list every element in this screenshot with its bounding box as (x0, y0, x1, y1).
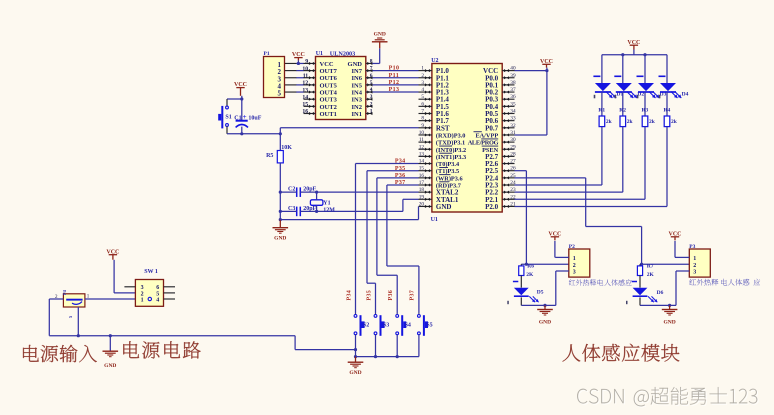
svg-text:1: 1 (141, 297, 144, 303)
svg-text:29: 29 (510, 144, 516, 150)
svg-text:9: 9 (305, 59, 308, 65)
svg-text:S3: S3 (383, 323, 389, 329)
svg-text:(RXD)P3.0: (RXD)P3.0 (436, 132, 466, 139)
svg-text:GND: GND (349, 370, 361, 376)
svg-text:1: 1 (693, 256, 696, 262)
svg-text:10K: 10K (281, 145, 292, 151)
svg-text:10uF: 10uF (248, 115, 261, 121)
svg-text:6: 6 (156, 285, 159, 291)
svg-text:P35: P35 (395, 166, 406, 172)
svg-text:R4: R4 (664, 108, 671, 114)
svg-text:5: 5 (156, 291, 159, 297)
svg-text:(T1)P3.5: (T1)P3.5 (436, 168, 459, 175)
svg-text:10: 10 (419, 130, 425, 136)
svg-text:34: 34 (510, 109, 516, 115)
svg-text:P10: P10 (389, 66, 400, 72)
svg-text:8: 8 (421, 116, 424, 122)
svg-text:IN5: IN5 (352, 82, 363, 89)
svg-text:5: 5 (421, 94, 424, 100)
svg-text:GND: GND (104, 363, 116, 369)
svg-text:Y1: Y1 (323, 200, 330, 206)
svg-text:28: 28 (510, 151, 516, 157)
svg-text:C2: C2 (288, 186, 295, 192)
svg-text:RST: RST (436, 124, 450, 132)
svg-text:3: 3 (421, 80, 424, 86)
svg-text:33: 33 (510, 116, 516, 122)
svg-text:2: 2 (573, 263, 576, 269)
svg-text:9: 9 (421, 123, 424, 129)
svg-text:(TXD)P3.1: (TXD)P3.1 (436, 140, 465, 147)
svg-text:35: 35 (510, 101, 516, 107)
svg-text:IN6: IN6 (352, 75, 363, 82)
svg-text:U2: U2 (431, 58, 438, 64)
svg-text:2: 2 (421, 73, 424, 79)
svg-text:10: 10 (302, 66, 308, 72)
svg-text:6: 6 (421, 101, 424, 107)
svg-text:12M: 12M (323, 208, 335, 214)
svg-text:16: 16 (302, 109, 308, 115)
svg-text:OUT3: OUT3 (320, 97, 338, 104)
svg-text:19: 19 (419, 194, 425, 200)
svg-text:32: 32 (510, 123, 516, 129)
svg-text:GND: GND (374, 32, 386, 38)
svg-text:U1: U1 (431, 217, 438, 223)
svg-text:3: 3 (141, 285, 144, 291)
svg-text:3: 3 (573, 270, 576, 276)
svg-text:S5: S5 (426, 323, 432, 329)
svg-text:P35: P35 (366, 290, 372, 301)
svg-text:GND: GND (436, 203, 452, 211)
svg-text:2k: 2k (671, 119, 678, 125)
svg-text:OUT5: OUT5 (320, 82, 338, 89)
svg-text:13: 13 (419, 151, 425, 157)
svg-text:38: 38 (510, 80, 516, 86)
svg-text:P0.7: P0.7 (485, 124, 499, 132)
svg-text:2k: 2k (649, 119, 656, 125)
svg-text:IN1: IN1 (352, 111, 362, 118)
svg-text:D6: D6 (657, 290, 664, 296)
svg-text:D4: D4 (682, 91, 689, 97)
svg-text:GND: GND (539, 320, 551, 326)
svg-text:39: 39 (510, 73, 516, 79)
svg-text:EA/VPP: EA/VPP (475, 132, 498, 139)
svg-text:15: 15 (419, 166, 425, 172)
svg-text:GND: GND (274, 236, 286, 242)
svg-text:S4: S4 (405, 323, 411, 329)
svg-text:2: 2 (693, 263, 696, 269)
svg-text:IN7: IN7 (352, 68, 363, 75)
svg-text:P11: P11 (389, 73, 400, 79)
svg-text:OUT7: OUT7 (320, 68, 338, 75)
svg-text:20pF: 20pF (303, 186, 316, 192)
svg-text:P3: P3 (689, 244, 695, 250)
svg-text:14: 14 (302, 95, 308, 101)
svg-text:(INT0)P3.2: (INT0)P3.2 (436, 147, 466, 154)
svg-text:P12: P12 (389, 80, 400, 86)
svg-text:GND: GND (348, 61, 363, 68)
svg-text:IN4: IN4 (352, 89, 363, 96)
svg-text:11: 11 (419, 137, 424, 143)
svg-text:16: 16 (419, 173, 425, 179)
svg-text:13: 13 (302, 88, 308, 94)
svg-text:37: 37 (510, 87, 516, 93)
svg-text:18: 18 (419, 187, 425, 193)
svg-text:7: 7 (421, 109, 424, 115)
svg-text:P34: P34 (346, 290, 352, 301)
svg-text:S1: S1 (225, 115, 231, 121)
svg-text:17: 17 (419, 180, 425, 186)
svg-text:IN2: IN2 (352, 104, 362, 111)
svg-text:IN3: IN3 (352, 97, 363, 104)
svg-text:OUT1: OUT1 (320, 111, 337, 118)
svg-text:(INT1)P3.3: (INT1)P3.3 (436, 154, 466, 161)
svg-text:SW 1: SW 1 (144, 269, 158, 275)
svg-text:2: 2 (141, 291, 144, 297)
svg-text:4: 4 (156, 297, 159, 303)
svg-text:P36: P36 (395, 173, 406, 179)
svg-text:R7: R7 (647, 263, 654, 269)
svg-text:OUT2: OUT2 (320, 104, 337, 111)
svg-text:P1: P1 (264, 51, 270, 57)
svg-text:P37: P37 (410, 290, 416, 301)
svg-text:S2: S2 (363, 323, 369, 329)
svg-text:R5: R5 (266, 153, 273, 159)
svg-text:11: 11 (303, 73, 309, 79)
svg-text:P2.0: P2.0 (485, 203, 499, 211)
svg-text:12: 12 (302, 81, 308, 87)
svg-text:(T0)P3.4: (T0)P3.4 (436, 161, 460, 168)
svg-text:OUT6: OUT6 (320, 75, 338, 82)
svg-text:P36: P36 (388, 290, 394, 301)
svg-text:R2: R2 (619, 108, 626, 114)
svg-text:D5: D5 (537, 289, 544, 295)
svg-text:27: 27 (510, 159, 516, 165)
svg-text:2K: 2K (647, 272, 655, 278)
svg-text:R6: R6 (527, 263, 534, 269)
svg-text:OUT4: OUT4 (320, 89, 338, 96)
svg-text:1: 1 (421, 66, 424, 72)
svg-text:P4: P4 (62, 289, 67, 295)
svg-text:R3: R3 (642, 108, 649, 114)
svg-text:(WR)P3.6: (WR)P3.6 (436, 175, 463, 182)
svg-text:15: 15 (302, 102, 308, 108)
svg-text:2K: 2K (526, 272, 534, 278)
svg-text:P2: P2 (569, 244, 575, 250)
svg-text:P34: P34 (395, 159, 406, 165)
svg-text:2k: 2k (606, 119, 613, 125)
svg-text:VCC: VCC (320, 61, 334, 68)
svg-text:1: 1 (573, 256, 576, 262)
svg-text:12: 12 (419, 144, 425, 150)
svg-text:C1: C1 (234, 115, 241, 121)
svg-text:P13: P13 (389, 87, 400, 93)
svg-text:5: 5 (278, 90, 282, 98)
svg-text:C3: C3 (288, 206, 295, 212)
svg-text:4: 4 (421, 87, 424, 93)
svg-text:20: 20 (419, 201, 425, 207)
svg-text:3: 3 (693, 270, 696, 276)
svg-text:ALE/PROG: ALE/PROG (468, 140, 499, 147)
svg-text:U1: U1 (316, 51, 323, 57)
svg-text:+: + (243, 113, 247, 121)
svg-text:14: 14 (419, 159, 425, 165)
svg-text:R1: R1 (598, 108, 605, 114)
svg-text:GND: GND (663, 320, 675, 326)
svg-text:30: 30 (510, 137, 516, 143)
svg-text:20pF: 20pF (303, 206, 316, 212)
svg-text:2k: 2k (627, 119, 634, 125)
svg-text:36: 36 (510, 94, 516, 100)
svg-text:ULN2003: ULN2003 (330, 50, 355, 57)
svg-text:P37: P37 (395, 180, 406, 186)
